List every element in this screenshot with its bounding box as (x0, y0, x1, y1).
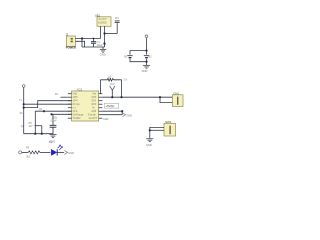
capacitor C1 (91, 38, 103, 47)
wire battery vertical (146, 39, 148, 65)
wire pin6 (35, 110, 71, 112)
svg-text:4k7: 4k7 (29, 125, 34, 128)
node junction (43, 110, 45, 112)
wire left bus (23, 88, 25, 133)
svg-text:IC1: IC1 (77, 88, 82, 92)
voltage regulator U2 (95, 14, 111, 27)
pin 6 right stub (99, 110, 103, 112)
jumper JP1 (115, 17, 120, 33)
svg-text:U$1: U$1 (95, 14, 101, 18)
node junction on rail (81, 37, 83, 39)
pin 5 left stub (68, 107, 72, 109)
ground GND4 (146, 139, 153, 147)
svg-text:0.1uF: 0.1uF (51, 120, 58, 123)
capacitor C2 (50, 114, 58, 134)
pin 4 right stub (99, 103, 103, 105)
wire J1 pin2 (75, 41, 84, 47)
node junction (50, 113, 52, 115)
pin 2 right stub (99, 96, 103, 98)
battery BT1 cell B (144, 55, 152, 59)
svg-text:GND: GND (100, 53, 106, 57)
wire to R6 (22, 151, 28, 153)
node junction (103, 43, 105, 45)
wire ground rail (82, 46, 105, 48)
resistor R6 (26, 145, 40, 158)
svg-text:+5V(R): +5V(R) (105, 104, 114, 108)
pin 5 right stub (99, 107, 103, 109)
transistor Q1 (21, 111, 42, 134)
svg-text:JP1: JP1 (115, 17, 120, 20)
svg-text:POWER: POWER (66, 46, 76, 50)
node junction (103, 32, 105, 34)
wire battery loop (130, 51, 147, 62)
connector J1 (65, 32, 76, 49)
svg-text:SW1: SW1 (165, 120, 172, 124)
wire pin6 to gnd flag (102, 111, 122, 115)
node junction (145, 61, 147, 63)
wire R6 to LED (40, 151, 51, 153)
svg-text:2k2: 2k2 (26, 154, 31, 158)
ground GND2 (142, 65, 151, 73)
svg-text:Gex/dp: Gex/dp (88, 114, 97, 117)
node port GND flag (64, 150, 67, 154)
svg-text:10uF: 10uF (97, 43, 103, 47)
node port left of R6 (19, 151, 22, 154)
node junction (120, 96, 122, 98)
wire J3 pin2 drop (160, 97, 173, 102)
svg-text:GND: GND (146, 143, 152, 147)
node junction (23, 107, 25, 109)
svg-text:TCxM2: TCxM2 (73, 117, 81, 120)
pin 3 left stub (68, 100, 72, 102)
svg-text:GND: GND (126, 114, 132, 118)
wire jumper to U2 pin (105, 33, 118, 35)
node port GND flag right (122, 113, 125, 117)
IC U1 (72, 88, 99, 121)
pin 8 right stub (99, 117, 103, 119)
wire J1 pin1 rail (75, 38, 100, 40)
pin 2 left stub (68, 96, 72, 98)
pin 8 left stub (68, 117, 72, 119)
svg-text:CN1: CN1 (173, 91, 179, 95)
node flag net A (top of left bus) (22, 85, 25, 89)
node junction (159, 96, 161, 98)
node junction (111, 96, 113, 98)
pin 7 left stub (68, 113, 72, 115)
pin name labels U1 (73, 93, 98, 121)
wire J4 pin1 (150, 127, 164, 138)
svg-text:GxxO/T: GxxO/T (89, 117, 98, 120)
pin 7 right stub (99, 114, 103, 116)
node junction (34, 133, 36, 135)
pin 1 right stub (99, 93, 103, 95)
svg-text:J1: J1 (65, 32, 69, 36)
svg-text:GND: GND (142, 69, 148, 73)
node junction (121, 110, 123, 112)
connector J4 (164, 120, 176, 136)
wire pin7 (52, 113, 72, 115)
node junction (41, 133, 43, 135)
LED D2 (49, 140, 63, 155)
pin 6 left stub (68, 110, 72, 112)
svg-text:GND: GND (68, 151, 74, 155)
connector J3 (173, 91, 184, 106)
wire LED to port (58, 151, 65, 153)
wire U2 pin right down to ground rail (104, 26, 106, 47)
wire R2 left leg to pin1 (100, 80, 102, 94)
wire pin4 to bus (24, 103, 72, 105)
wire Rx stub to pin2 (61, 96, 68, 98)
pin 4 left stub (68, 103, 72, 105)
power flag VCC (110, 84, 115, 97)
wire pin3 to bus (24, 101, 72, 108)
pin 1 left stub (68, 93, 72, 95)
svg-text:VCC: VCC (110, 84, 115, 86)
ground GND3 (49, 135, 56, 144)
svg-text:IN OUT: IN OUT (99, 18, 108, 21)
svg-text:GND: GND (103, 118, 109, 121)
wire J4 pin2 (150, 129, 164, 131)
svg-text:LM2936: LM2936 (98, 22, 107, 25)
wire vertical from junction down (81, 39, 83, 48)
node flag VIN (battery) (145, 35, 148, 39)
svg-text:D2: D2 (49, 140, 53, 144)
node junction (149, 129, 151, 131)
wire R2 right leg down (121, 80, 123, 97)
svg-text:R6: R6 (26, 145, 30, 149)
ground GND1 (100, 47, 106, 57)
svg-text:Dx/Gauge: Dx/Gauge (73, 114, 85, 117)
node junction (145, 50, 147, 52)
battery BT1 cell A (124, 55, 133, 59)
wire pin2 net to J3 (102, 96, 172, 98)
wire U2 pin left down to rail (100, 26, 102, 38)
resistor R2 (101, 76, 122, 81)
wire pin7 to gnd flag (102, 114, 122, 116)
pin 3 right stub (99, 100, 103, 102)
wire bottom rail (24, 133, 53, 135)
node junction (23, 103, 25, 105)
net label box +5V (104, 103, 118, 108)
